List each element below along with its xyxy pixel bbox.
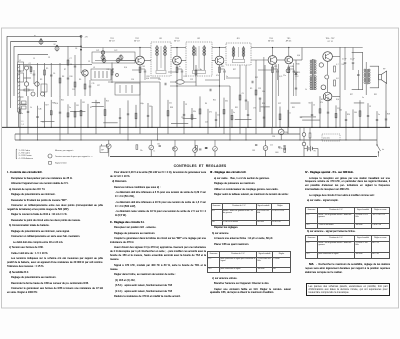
svg-text:C5: C5 [33, 58, 35, 60]
svg-text:R21: R21 [274, 66, 277, 68]
svg-text:R12: R12 [321, 99, 324, 101]
svg-text:560: 560 [354, 112, 357, 114]
svg-text:R33: R33 [285, 132, 288, 134]
svg-text:47k: 47k [97, 103, 100, 105]
svg-text:C31: C31 [76, 105, 79, 107]
svg-text:0,1 µF: 0,1 µF [350, 59, 355, 61]
svg-text:R24: R24 [347, 114, 350, 116]
svg-text:4,7: 4,7 [336, 64, 338, 66]
svg-text:C9: C9 [242, 93, 244, 95]
svg-text:1k: 1k [30, 107, 32, 109]
svg-text:33k: 33k [193, 111, 196, 113]
svg-text:+9V: +9V [85, 36, 89, 38]
svg-text:L3: L3 [93, 67, 95, 69]
svg-text:1n: 1n [289, 113, 291, 115]
svg-text:1k: 1k [305, 89, 307, 91]
svg-text:C25: C25 [258, 88, 261, 90]
svg-text:R31: R31 [147, 76, 150, 78]
svg-text:10k: 10k [262, 91, 265, 93]
svg-text:560: 560 [308, 103, 311, 105]
svg-text:R31: R31 [235, 107, 238, 109]
svg-text:C6: C6 [53, 73, 55, 75]
svg-text:R21: R21 [61, 100, 64, 102]
svg-text:S2: S2 [54, 44, 56, 46]
svg-text:47k: 47k [209, 112, 212, 114]
svg-text:5n: 5n [378, 114, 380, 116]
svg-text:R27: R27 [46, 105, 49, 107]
svg-text:CV2: CV2 [114, 50, 117, 52]
svg-text:R18: R18 [181, 117, 184, 119]
svg-text:22n: 22n [283, 75, 286, 77]
svg-text:R10: R10 [70, 76, 73, 78]
svg-text:C19: C19 [72, 89, 75, 91]
svg-text:47k: 47k [320, 102, 323, 104]
svg-text:R12: R12 [255, 77, 258, 79]
svg-text:Tension mesuree d apres par ra: Tension mesuree d apres par rapport in +… [55, 155, 93, 158]
svg-text:R3: R3 [40, 79, 42, 81]
svg-text:C12: C12 [270, 144, 273, 146]
svg-text:4,7k: 4,7k [329, 100, 332, 102]
svg-text:C11: C11 [92, 83, 95, 85]
svg-text:22n: 22n [169, 103, 172, 105]
svg-text:R21: R21 [213, 100, 216, 102]
svg-text:6,8: 6,8 [336, 78, 338, 80]
svg-text:AF 117: AF 117 [134, 39, 140, 42]
svg-text:5n: 5n [233, 112, 235, 114]
svg-text:JF1: JF1 [159, 38, 162, 40]
svg-text:C12: C12 [217, 115, 220, 117]
svg-text:prise alim.: prise alim. [323, 137, 331, 140]
svg-text:33k: 33k [225, 100, 228, 102]
svg-text:R27: R27 [233, 69, 236, 71]
svg-text:C31: C31 [157, 144, 160, 146]
svg-text:9V: 9V [314, 151, 317, 153]
svg-text:D1: D1 [298, 72, 300, 74]
svg-text:R5: R5 [46, 68, 48, 70]
svg-text:R7: R7 [64, 69, 66, 71]
svg-text:C5: C5 [313, 105, 315, 107]
svg-text:R9: R9 [250, 88, 252, 90]
svg-text:5n: 5n [200, 69, 202, 71]
svg-text:1000: 1000 [275, 152, 279, 154]
svg-text:C4: C4 [70, 64, 72, 66]
svg-text:CV1: CV1 [96, 50, 99, 52]
svg-text:R11: R11 [107, 69, 110, 71]
svg-text:R8: R8 [62, 76, 64, 78]
svg-text:8,2k: 8,2k [336, 99, 339, 101]
svg-text:R27: R27 [278, 103, 281, 105]
svg-text:HP: HP [383, 69, 386, 71]
svg-text:6,8k: 6,8k [290, 66, 293, 68]
svg-text:6,8k: 6,8k [146, 78, 149, 80]
svg-text:560: 560 [299, 117, 302, 119]
svg-text:R7: R7 [90, 107, 92, 109]
svg-text:R27: R27 [350, 94, 353, 96]
svg-text:MP: MP [101, 150, 104, 152]
svg-text:R18: R18 [387, 113, 390, 115]
svg-text:47k: 47k [216, 75, 219, 77]
svg-text:270: 270 [253, 107, 256, 109]
svg-text:JF2: JF2 [197, 38, 200, 40]
svg-text:5n: 5n [362, 97, 364, 99]
svg-text:22n: 22n [20, 113, 23, 115]
svg-text:1,5: 1,5 [22, 124, 24, 126]
svg-text:C8: C8 [75, 48, 77, 50]
svg-text:5n: 5n [226, 76, 228, 78]
svg-text:4,7 nF: 4,7 nF [342, 59, 347, 61]
svg-text:4 - R15 Antenne: 4 - R15 Antenne [19, 157, 34, 160]
svg-text:C9: C9 [88, 61, 90, 63]
svg-text:R12: R12 [184, 76, 187, 78]
svg-text:AF 116: AF 116 [286, 39, 292, 42]
svg-text:C31: C31 [82, 102, 85, 104]
svg-text:R31: R31 [374, 94, 377, 96]
svg-text:C34: C34 [158, 79, 161, 81]
svg-text:C9: C9 [48, 57, 50, 59]
svg-text:OC 74: OC 74 [327, 41, 332, 43]
svg-text:R15: R15 [221, 66, 224, 68]
svg-text:R6: R6 [79, 79, 81, 81]
svg-text:R31: R31 [292, 107, 295, 109]
svg-text:4,7k: 4,7k [279, 76, 282, 78]
svg-text:AF 116: AF 116 [268, 39, 274, 42]
svg-text:R38: R38 [262, 103, 265, 105]
svg-text:1n: 1n [42, 122, 44, 124]
svg-text:1n: 1n [153, 151, 155, 153]
svg-text:C31: C31 [149, 106, 152, 108]
svg-text:6,8k: 6,8k [39, 109, 42, 111]
svg-text:C16: C16 [131, 79, 134, 81]
svg-text:R31: R31 [252, 150, 255, 152]
svg-text:R4: R4 [205, 103, 207, 105]
svg-text:C19: C19 [190, 79, 193, 81]
svg-text:100: 100 [342, 64, 345, 66]
svg-text:22n: 22n [140, 150, 143, 152]
svg-text:AF 117: AF 117 [174, 39, 180, 42]
svg-text:C30: C30 [272, 136, 275, 138]
svg-text:Int.: Int. [382, 148, 385, 151]
svg-text:4,7k: 4,7k [279, 148, 282, 150]
svg-text:AF 117: AF 117 [109, 39, 115, 42]
svg-text:JF3: JF3 [236, 38, 239, 40]
svg-text:C9: C9 [185, 104, 187, 106]
svg-text:8,2k: 8,2k [55, 103, 58, 105]
svg-text:L1: L1 [22, 121, 24, 123]
svg-text:100p: 100p [140, 103, 144, 105]
svg-text:R38: R38 [170, 107, 173, 109]
svg-text:L1: L1 [19, 60, 21, 62]
svg-text:C40: C40 [339, 109, 342, 111]
svg-text:Mesure, par rapport -: Mesure, par rapport - [55, 149, 74, 152]
svg-text:C34: C34 [142, 66, 145, 68]
svg-text:C27: C27 [97, 85, 100, 87]
svg-text:R40: R40 [297, 64, 300, 66]
svg-text:C7: C7 [70, 58, 72, 60]
svg-text:S1: S1 [34, 36, 36, 38]
svg-text:C9: C9 [369, 106, 371, 108]
svg-text:5n: 5n [69, 107, 71, 109]
svg-text:R15: R15 [106, 101, 109, 103]
svg-text:2,2k: 2,2k [205, 121, 208, 123]
svg-text:6,8k: 6,8k [297, 55, 300, 57]
svg-text:8,2k: 8,2k [124, 67, 127, 69]
svg-text:1n: 1n [179, 66, 181, 68]
